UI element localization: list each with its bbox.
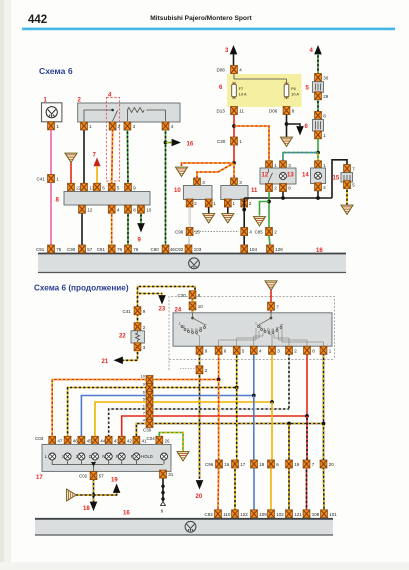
svg-text:Mitsubishi Pajero/Montero Spor: Mitsubishi Pajero/Montero Sport [150, 15, 252, 22]
internal links [197, 328, 324, 346]
connector 45 [78, 436, 85, 444]
indicator lamp [92, 453, 99, 460]
node at 234,126 [232, 124, 236, 128]
row7 black-yellow [136, 424, 323, 437]
svg-text:21: 21 [102, 359, 109, 365]
connector C41 pin9 [137, 295, 139, 323]
svg-text:10: 10 [198, 304, 204, 309]
ground left-pointing [67, 489, 76, 501]
component 10 [194, 178, 201, 186]
yellow-black from pin5 to ground [346, 189, 348, 205]
svg-text:L: L [179, 322, 181, 326]
svg-text:C91: C91 [36, 247, 45, 252]
ground [203, 214, 215, 223]
wire arrow4 to comp5 green-black [317, 54, 319, 74]
connector C91 79 [108, 245, 115, 253]
connector 20 [320, 460, 327, 468]
connector C85 pin2 [266, 228, 273, 236]
svg-text:C41: C41 [37, 177, 46, 182]
connector 104 [241, 245, 248, 253]
connector C30 pin8 [189, 291, 196, 299]
fuse box highlight 6 [227, 74, 302, 107]
indicator lamp [78, 453, 85, 460]
svg-text:108: 108 [312, 512, 320, 517]
svg-text:15: 15 [333, 176, 340, 182]
component 22 [134, 323, 141, 331]
ground [177, 452, 189, 461]
connector C41 pin1 [48, 175, 55, 183]
component 11 [231, 178, 238, 186]
green branch to ground [260, 202, 270, 216]
connector 3 [269, 346, 276, 354]
indicator lamp [105, 453, 112, 460]
row6 red [122, 416, 307, 437]
wire comp5 to comp6 green-black [317, 100, 319, 112]
connector C96 pin4 [241, 228, 248, 236]
svg-text:C96: C96 [205, 462, 214, 467]
connector 4 [250, 346, 257, 354]
connector 17 [232, 460, 239, 468]
pink wire comp1 to C41 [50, 130, 52, 175]
connector 102 [268, 510, 275, 518]
svg-text:14: 14 [302, 173, 309, 179]
connector 2 [186, 199, 193, 207]
svg-text:110: 110 [223, 512, 231, 517]
svg-text:11: 11 [239, 109, 244, 114]
svg-text:C90: C90 [151, 247, 160, 252]
connector 5 [344, 181, 351, 189]
wire red-yellow to ground left [182, 163, 235, 166]
svg-text:442: 442 [28, 14, 47, 26]
arrow 18 down [90, 502, 98, 511]
connector 10 [138, 205, 145, 213]
connector 2 [241, 199, 248, 207]
connector C30 pin1 [231, 137, 238, 145]
connector 2 [109, 122, 116, 130]
svg-text:D13: D13 [217, 109, 226, 114]
bar 1 [38, 254, 346, 273]
connector 4 [108, 205, 115, 213]
svg-text:HOLD: HOLD [141, 454, 153, 459]
connector 1 [205, 199, 212, 207]
indicator lamp [118, 453, 125, 460]
connector 46 [64, 436, 71, 444]
connector 108 [303, 510, 310, 518]
comp11 pin2 black down to bar [243, 207, 245, 245]
comp10 pin1 black to ground [208, 207, 210, 213]
svg-text:C92: C92 [175, 247, 184, 252]
connector 5 [146, 398, 153, 406]
svg-text:29: 29 [323, 94, 329, 99]
svg-text:4: 4 [107, 93, 112, 99]
wire red-yellow right to comp12 pin1 [234, 126, 269, 162]
svg-text:30: 30 [323, 76, 329, 81]
ground triangle above pin7 [265, 281, 277, 290]
component 8 [68, 183, 75, 191]
node at 234,163 [232, 161, 236, 165]
connector 101 [321, 510, 328, 518]
connector 76 [125, 245, 132, 253]
comp12 pin2 green down [268, 192, 270, 228]
connector 29 [315, 92, 322, 100]
svg-text:20: 20 [196, 494, 203, 500]
connector 6 [146, 392, 153, 400]
svg-text:12: 12 [262, 173, 269, 179]
header rule [22, 28, 395, 31]
svg-text:44: 44 [100, 438, 106, 443]
wire C30 red down to node [233, 145, 235, 163]
connector 8 [304, 346, 311, 354]
comp10 pin2 white wire to C96-15 [189, 207, 191, 228]
svg-text:16: 16 [316, 248, 323, 254]
wire red-yellow down to comp11 pin3 [233, 163, 235, 179]
svg-text:D: D [267, 328, 270, 332]
connector 26 [156, 436, 163, 444]
component 5 [315, 74, 322, 82]
fusebox internal link [234, 73, 287, 82]
comp8 pin10 green-black to arrow9 [140, 213, 142, 223]
lamps [45, 454, 153, 459]
svg-text:12: 12 [87, 207, 93, 212]
svg-text:10: 10 [146, 207, 152, 212]
columns below rows to C96 [218, 380, 220, 461]
comp2 pins [81, 122, 88, 130]
svg-text:C96: C96 [175, 230, 184, 235]
row1 red-yellow [52, 380, 218, 437]
svg-text:42: 42 [127, 438, 133, 443]
svg-text:10 A: 10 A [239, 91, 247, 96]
svg-text:C90: C90 [67, 247, 76, 252]
svg-text:122: 122 [240, 512, 248, 517]
connector 9 8 [125, 183, 132, 191]
svg-text:23: 23 [159, 307, 166, 313]
connector 1 14 [315, 161, 322, 169]
connector 128 [267, 245, 274, 253]
connector 41 C04 [133, 436, 140, 444]
connector 2 [315, 183, 322, 191]
svg-text:2: 2 [183, 325, 185, 329]
connector 7 [303, 460, 310, 468]
connector 43 [105, 436, 112, 444]
svg-text:10: 10 [141, 374, 146, 379]
conn 31 and sensor 9 [160, 470, 167, 478]
comp8 pin4 yellow-red to bar [111, 213, 113, 245]
svg-text:20: 20 [329, 462, 335, 467]
comp24 bottom pins [196, 346, 203, 354]
ground [222, 214, 234, 223]
svg-text:3: 3 [263, 327, 265, 331]
svg-text:17: 17 [240, 462, 246, 467]
connector 6 [268, 460, 275, 468]
svg-text:C41: C41 [123, 309, 132, 314]
svg-text:16: 16 [187, 141, 194, 147]
black down to junction [93, 480, 95, 502]
left selector [181, 313, 206, 334]
connector C92 103 [185, 245, 192, 253]
wire green-blue left to comp13 pin3 [283, 153, 318, 162]
dotted link C96 [194, 231, 239, 233]
columns C96 to C92 [217, 468, 220, 510]
internal bus + diode [52, 461, 164, 472]
connector 3 [280, 161, 287, 169]
pin2 column black-white [288, 355, 290, 410]
svg-text:18: 18 [83, 506, 90, 512]
svg-text:N: N [195, 328, 198, 332]
connector 122 [232, 510, 239, 518]
row4 yellow [95, 402, 272, 437]
component 12/13 [266, 161, 273, 169]
svg-text:D08: D08 [217, 68, 226, 73]
connector 4 [162, 122, 169, 130]
wire comp2 pin1 black down to comp8 [83, 130, 85, 183]
connector C90 57 [79, 245, 86, 253]
right selector [258, 313, 283, 334]
connector 7 [268, 302, 275, 310]
node D06 branch [285, 122, 289, 126]
black hook from pin7 to bus [332, 160, 347, 198]
connector 6 [215, 346, 222, 354]
svg-text:22: 22 [119, 334, 126, 340]
svg-text:101: 101 [329, 512, 337, 517]
ground G2 [176, 167, 188, 176]
svg-text:57: 57 [87, 247, 93, 252]
svg-text:10: 10 [174, 188, 181, 194]
pin5 column yellow-black [236, 355, 238, 388]
svg-text:75: 75 [56, 247, 62, 252]
wire arrow3 to D08 [233, 54, 235, 67]
svg-text:3: 3 [187, 327, 189, 331]
comp8 pin8 green-black to bar [127, 213, 129, 245]
arrow 19 up [113, 484, 121, 493]
connector C02 pin57 [90, 472, 97, 480]
ground [254, 217, 266, 226]
ground below D06 [281, 137, 293, 146]
svg-text:16: 16 [224, 462, 230, 467]
connector D06 pin8 [283, 107, 290, 115]
bar 2 [35, 519, 333, 535]
fuse F6 10A [284, 82, 289, 99]
pink wire C41 to bar [50, 183, 52, 246]
svg-text:19: 19 [111, 478, 118, 484]
connector 2 [196, 366, 203, 374]
svg-text:18: 18 [259, 462, 265, 467]
svg-text:C91: C91 [97, 247, 106, 252]
connector 16 [216, 460, 223, 468]
connector D08 pin4 [231, 66, 238, 74]
pin3 column yellow [271, 355, 273, 403]
connector 8 [125, 205, 132, 213]
connector 9 [146, 384, 153, 392]
node green [316, 151, 320, 155]
connector 1 [320, 346, 327, 354]
row2 yellow-black [68, 388, 237, 437]
pin6 column red-yellow [218, 355, 220, 380]
connector 7 [146, 412, 153, 420]
connector 42 [118, 436, 125, 444]
svg-text:Схема 6: Схема 6 [39, 66, 73, 76]
svg-text:17: 17 [36, 475, 43, 481]
connector 10 [189, 302, 196, 310]
connector 4 C30 [146, 420, 153, 428]
connector 1 [224, 199, 231, 207]
pin9 column black-yellow to arrow 20 [199, 355, 201, 480]
connector 121 [286, 510, 293, 518]
component 6 [315, 112, 322, 120]
connector 44 [92, 436, 99, 444]
svg-text:47: 47 [57, 438, 63, 443]
connector 5 [108, 183, 115, 191]
svg-text:R: R [276, 327, 279, 331]
bar1 connectors [48, 245, 55, 253]
svg-text:2: 2 [260, 325, 262, 329]
ground [341, 205, 353, 214]
connector 19 [286, 460, 293, 468]
connector C96 pin15 [186, 228, 193, 236]
svg-text:D06: D06 [269, 109, 278, 114]
dashed variant box 4 [106, 98, 119, 182]
connector C90 46 [162, 245, 169, 253]
svg-text:128: 128 [275, 247, 283, 252]
indicator lamp [49, 453, 56, 460]
connector 18 [251, 460, 258, 468]
svg-text:C30: C30 [217, 139, 226, 144]
comp11 pin1 black to ground [227, 207, 229, 213]
connector 6 [94, 183, 101, 191]
comp8 pin12 black to bar [81, 213, 83, 245]
svg-text:C30: C30 [178, 293, 187, 298]
connector 2 [266, 184, 273, 192]
connector 8 [280, 184, 287, 192]
comp2 internals [84, 108, 166, 121]
svg-text:F6: F6 [291, 86, 296, 91]
connector 12 [79, 205, 86, 213]
connector 3 [124, 122, 131, 130]
connector 1 [315, 131, 322, 139]
svg-text:C85: C85 [255, 230, 264, 235]
component 14 [317, 153, 319, 162]
svg-text:C02: C02 [79, 474, 88, 479]
connector D13 pin11 [231, 107, 238, 115]
svg-text:16: 16 [123, 511, 130, 517]
wire red-yellow diag to comp10 pin3 [197, 163, 234, 179]
branch to arrow 23 [138, 294, 163, 296]
connector 1 [146, 405, 153, 413]
svg-text:102: 102 [276, 512, 284, 517]
wire comp2 pin2 red-yellow down [111, 130, 114, 183]
wire comp2 pin4 green down [165, 130, 167, 245]
svg-text:D: D [191, 328, 194, 332]
connector 5 [233, 346, 240, 354]
wire comp2 pin3 green-black down [126, 130, 129, 183]
pin4 column blue [253, 355, 255, 396]
svg-text:11: 11 [251, 188, 258, 194]
white wire to bar [189, 236, 190, 246]
indicator lamp [161, 453, 168, 460]
svg-text:46: 46 [73, 438, 79, 443]
wire C30-8 to pin10 [192, 299, 194, 303]
ground above comp8 pin22 [65, 153, 77, 162]
black bus 12/14/15 [244, 197, 332, 199]
svg-text:R: R [200, 327, 203, 331]
connector 47 [49, 436, 56, 444]
connector 2 [286, 346, 293, 354]
indicator lamp [64, 453, 71, 460]
pin8 column red [306, 355, 308, 417]
svg-text:13: 13 [287, 173, 294, 179]
svg-text:31: 31 [168, 472, 174, 477]
svg-text:L: L [256, 322, 258, 326]
svg-text:103: 103 [194, 247, 202, 252]
wire to arrow 21 [122, 351, 138, 360]
indicator lamp [133, 453, 140, 460]
green from C04-26 to ground [159, 433, 183, 452]
fuse F7 10A [232, 82, 237, 99]
svg-text:15: 15 [195, 230, 201, 235]
connector 1 [48, 122, 55, 130]
svg-text:C03: C03 [35, 436, 44, 441]
row3 blue [81, 396, 253, 437]
arrow 4 [314, 45, 322, 54]
dash-dot border around 24 [169, 297, 335, 371]
svg-text:79: 79 [117, 247, 123, 252]
svg-text:N: N [272, 328, 275, 332]
svg-text:76: 76 [133, 247, 139, 252]
wire comp6 green down [317, 139, 319, 162]
component 15 [344, 165, 351, 173]
comp13 pin8 black down to bus [282, 192, 284, 198]
yellow-black horizontal [76, 486, 117, 495]
svg-text:19: 19 [294, 462, 300, 467]
svg-text:F7: F7 [239, 86, 244, 91]
connector 13 [81, 183, 88, 191]
indicator lamp [280, 173, 287, 180]
svg-text:Схема 6 (продолжение): Схема 6 (продолжение) [34, 284, 129, 293]
connector C41 9 [134, 307, 141, 315]
connector 109 [251, 510, 258, 518]
svg-text:C30: C30 [143, 428, 152, 433]
svg-text:C92: C92 [205, 512, 214, 517]
svg-text:10 A: 10 A [291, 91, 299, 96]
wire black to down arrow [287, 124, 301, 126]
top yellow-black link wire [138, 287, 196, 296]
svg-text:26: 26 [165, 438, 171, 443]
C30 stack connectors [146, 376, 153, 384]
node pin4 branch [164, 141, 168, 145]
svg-text:57: 57 [99, 474, 105, 479]
wire D13 red down [233, 115, 235, 137]
svg-text:C04: C04 [147, 436, 156, 441]
row5 black-white [109, 409, 289, 437]
arrow 3 [230, 45, 238, 54]
indicator lamp [315, 172, 322, 179]
connector 110 [215, 510, 222, 518]
svg-text:104: 104 [250, 247, 258, 252]
green to bar [269, 236, 270, 246]
pin1 column black-yellow [323, 355, 325, 424]
wire green-yellow to arrow16 [166, 142, 174, 144]
svg-text:109: 109 [259, 512, 267, 517]
svg-text:121: 121 [294, 512, 302, 517]
connector 3 [134, 343, 141, 351]
wire D06 black down [286, 115, 288, 137]
